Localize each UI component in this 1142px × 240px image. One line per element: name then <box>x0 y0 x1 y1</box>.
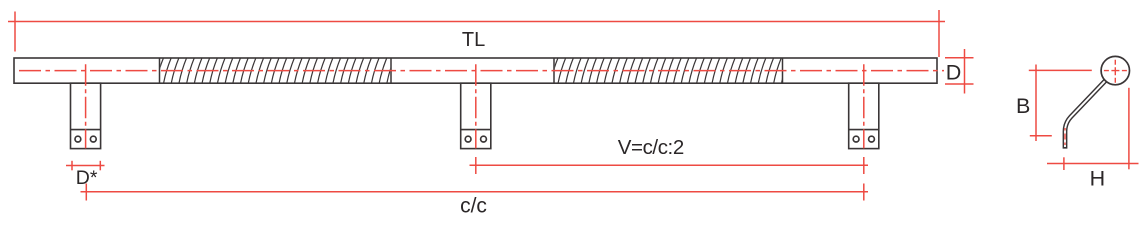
bar centerline (red dash-dot) <box>19 70 944 72</box>
dimension V=c/c:2 line <box>470 157 869 174</box>
bracket right <box>849 83 879 148</box>
dimension D (bar diameter) <box>945 49 974 94</box>
bracket centerline left <box>85 64 87 148</box>
bracket centerline right <box>863 64 865 148</box>
knurled section 2 boundaries <box>554 58 783 83</box>
side view tube circle <box>1101 56 1129 84</box>
side view arm (wall bracket profile) <box>1065 80 1106 148</box>
side view foot centerline dashes <box>1064 128 1066 146</box>
dimension B <box>1029 65 1092 142</box>
svg-text:B: B <box>1016 94 1030 118</box>
bar tube body <box>14 58 937 83</box>
svg-text:V=c/c:2: V=c/c:2 <box>618 136 684 159</box>
dimension H <box>1047 88 1139 170</box>
dimension c/c line <box>81 184 869 201</box>
side view circle center cross <box>1104 60 1127 83</box>
bracket centerline center <box>475 64 477 148</box>
svg-text:c/c: c/c <box>460 195 487 218</box>
dimension TL line <box>8 10 945 57</box>
knurled section 2 hatch <box>551 58 789 82</box>
bracket left <box>71 83 101 148</box>
svg-text:D: D <box>946 60 962 84</box>
bracket center <box>461 83 491 148</box>
knurled section 1 boundaries <box>160 58 392 83</box>
knurled section 1 hatch <box>156 58 394 82</box>
svg-text:TL: TL <box>462 29 485 51</box>
dimension D* <box>66 161 105 171</box>
svg-text:H: H <box>1090 167 1106 191</box>
